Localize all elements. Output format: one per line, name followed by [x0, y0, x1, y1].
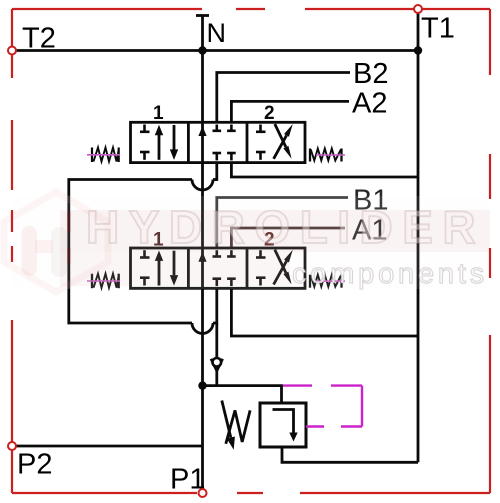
valve V1 spring right — [310, 149, 342, 162]
wire carryover frame valve1 to valve2 — [69, 180, 192, 324]
wire P2 inlet — [12, 445, 203, 448]
watermark band — [12, 196, 490, 289]
pilot tint valve V1 spring right — [316, 154, 345, 156]
border frame top — [12, 8, 490, 10]
valve V1 position 2 symbols — [256, 124, 293, 160]
wire valve2 tank return to trunk — [231, 288, 418, 336]
pilot tint valve V1 spring left — [87, 154, 120, 156]
wire P gallery to relief valve — [203, 386, 282, 403]
node junction N — [198, 46, 206, 54]
wire top rail T2 to T1 — [12, 49, 418, 52]
wire valve1 tank return to trunk — [231, 163, 418, 177]
terminal circle T1 — [414, 5, 422, 13]
wire relief valve outlet to tank trunk — [282, 447, 418, 462]
valve V1 center position symbols — [198, 125, 235, 161]
svg-text:1: 1 — [153, 103, 164, 124]
valve V2 spring right — [310, 275, 342, 288]
node junction T1 rail — [414, 46, 422, 54]
wire hop over trunk below valve2 — [192, 288, 217, 333]
svg-text:A2: A2 — [352, 88, 387, 120]
watermark tint on carryover frame wire — [67, 212, 70, 263]
svg-text:components: components — [292, 258, 488, 290]
wire right tank trunk — [417, 51, 420, 463]
valve V1 spring left — [92, 148, 119, 163]
valve V2 position 2 symbols — [256, 250, 293, 286]
watermark red tint band — [60, 210, 490, 252]
svg-text:2: 2 — [264, 103, 275, 124]
svg-text:T2: T2 — [22, 23, 56, 55]
relief valve RV1 flow arrow — [273, 410, 298, 442]
valve V2 position 1 symbols — [140, 250, 178, 285]
node junction P gallery — [198, 381, 206, 389]
terminal circle P1 — [199, 489, 207, 497]
pilot tint valve V2 spring right — [316, 280, 345, 282]
relief valve RV1 body — [260, 403, 306, 447]
pilot tint valve V2 spring left — [87, 280, 120, 282]
svg-text:B2: B2 — [353, 58, 388, 90]
wire port A1 — [231, 228, 345, 248]
port N stub — [196, 16, 209, 51]
wire port B1 — [217, 198, 348, 249]
wire port A2 — [231, 101, 349, 122]
terminal circle P2 — [8, 442, 16, 450]
svg-text:N: N — [207, 18, 227, 48]
pilot line relief valve (magenta dashed) — [283, 386, 362, 427]
valve V2 center position symbols — [198, 250, 235, 286]
svg-text:T1: T1 — [421, 13, 455, 45]
valve V1 position 1 symbols — [140, 125, 178, 160]
wire port B2 — [217, 73, 350, 123]
border frame left — [11, 9, 13, 493]
valve V2 spring left — [92, 274, 119, 289]
border frame bottom — [12, 492, 490, 494]
wire check valve feed — [215, 323, 218, 359]
wire hop over trunk below valve1 — [192, 163, 217, 190]
valve V1 body — [131, 122, 306, 162]
wire T1 drop — [417, 9, 420, 51]
valve V2 body — [131, 248, 306, 288]
terminal circle T2 — [8, 47, 16, 55]
check valve CV1 — [211, 358, 223, 386]
svg-text:P2: P2 — [17, 449, 52, 481]
border frame right — [489, 9, 491, 493]
relief valve RV1 adjustable spring — [222, 401, 250, 450]
watermark logo hexagon — [4, 192, 108, 292]
wire center pressure trunk N to P1 — [201, 51, 204, 494]
